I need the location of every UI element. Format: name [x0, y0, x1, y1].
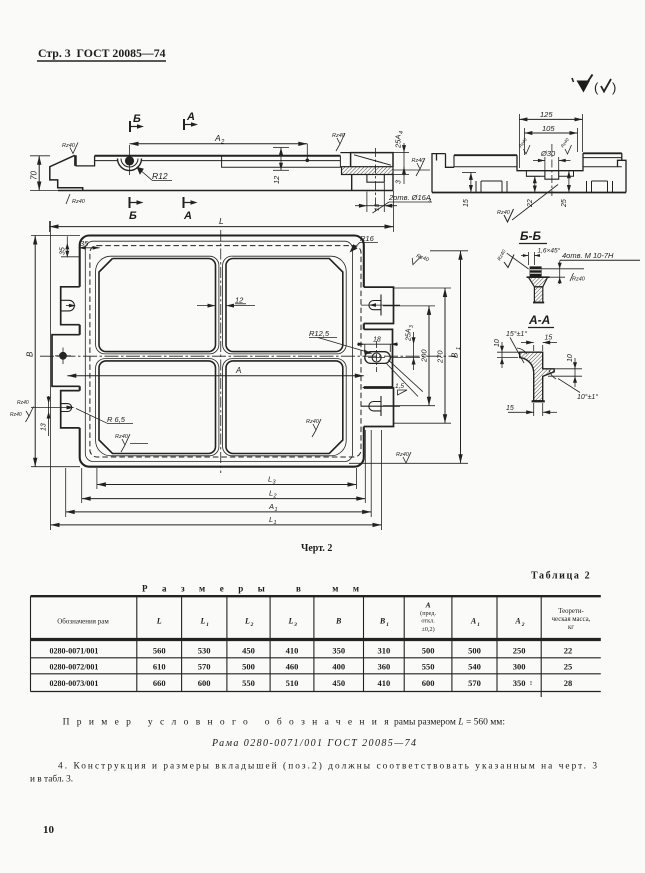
svg-text:15°±1°: 15°±1°	[506, 330, 527, 338]
data rows	[50, 646, 573, 689]
dimension 200	[383, 306, 435, 406]
dimension A	[67, 366, 364, 378]
svg-text:ческая масса,: ческая масса,	[552, 616, 591, 623]
L1	[51, 515, 382, 527]
Rz40 with leader to middle	[497, 185, 558, 223]
svg-text:610: 610	[153, 662, 166, 672]
svg-text:530: 530	[198, 646, 211, 656]
svg-text:!: !	[530, 681, 532, 687]
inner flange contour	[85, 241, 352, 461]
bottom dimensions L3 L2 A1 L1	[51, 221, 382, 530]
section mark А (bottom)	[183, 197, 198, 222]
svg-text:500: 500	[468, 646, 481, 656]
svg-text:270: 270	[436, 350, 445, 364]
svg-text:(пред.: (пред.	[420, 610, 436, 617]
svg-text:550: 550	[422, 662, 435, 672]
internal shelf line	[222, 156, 341, 167]
dimension 270	[394, 288, 451, 423]
dimension 35 vertical	[60, 236, 81, 257]
svg-text:L: L	[287, 617, 293, 626]
svg-text:15: 15	[545, 335, 553, 342]
svg-text:410: 410	[378, 678, 391, 688]
right end raised block	[351, 153, 393, 167]
svg-text:R12: R12	[152, 171, 168, 181]
svg-text:510: 510	[286, 678, 299, 688]
header texts	[57, 601, 590, 634]
svg-text:4отв. М 10-7Н: 4отв. М 10-7Н	[562, 251, 614, 260]
boss below with hole	[352, 175, 393, 191]
table grid	[31, 596, 601, 697]
dimension A2	[130, 133, 310, 162]
svg-text:15: 15	[506, 405, 514, 412]
roughness symbol top right	[577, 81, 591, 93]
lower-left lug	[61, 391, 80, 428]
svg-text:Rz40: Rz40	[560, 137, 570, 149]
flange	[528, 277, 547, 287]
svg-text:4: 4	[399, 131, 405, 134]
opening bottom-right	[226, 361, 343, 454]
svg-text:660: 660	[153, 678, 166, 688]
content injected below	[37, 46, 616, 95]
svg-text:и в табл. 3.: и в табл. 3.	[30, 774, 73, 785]
svg-text:R16: R16	[360, 234, 375, 243]
svg-text:25A: 25A	[394, 135, 403, 149]
svg-text:250: 250	[513, 646, 526, 656]
svg-text:Rz40: Rz40	[497, 249, 508, 262]
svg-text:В: В	[335, 617, 342, 626]
svg-text:13: 13	[41, 423, 48, 431]
centerlines	[220, 230, 222, 473]
small roughness checks on ext lines	[524, 145, 531, 154]
svg-text:А: А	[186, 111, 195, 123]
svg-text:560: 560	[153, 646, 166, 656]
dimension 18	[355, 183, 397, 212]
svg-text:L: L	[156, 617, 162, 626]
svg-text:12: 12	[235, 296, 244, 305]
svg-text:А: А	[268, 502, 274, 511]
dimension 25A3	[391, 325, 421, 370]
svg-text:Таблица 2: Таблица 2	[531, 571, 591, 582]
rail bottom	[58, 190, 394, 192]
svg-text:А: А	[425, 601, 431, 610]
section mark Б (bottom)	[129, 197, 144, 222]
svg-text:Ø30: Ø30	[540, 149, 556, 158]
stem	[534, 287, 542, 303]
boss with R12	[118, 145, 142, 175]
svg-text:70: 70	[30, 171, 39, 180]
threaded cap (dark)	[530, 266, 542, 277]
svg-text:550: 550	[242, 678, 255, 688]
left inner shelf	[454, 166, 517, 168]
svg-text:3: 3	[396, 180, 403, 184]
section mark Б (top)	[130, 113, 144, 132]
left feet slots	[476, 181, 507, 193]
label 1,6x45	[521, 247, 561, 266]
svg-text:Б: Б	[129, 210, 137, 222]
opening bottom-left	[99, 361, 216, 454]
svg-text:А-А: А-А	[528, 313, 550, 327]
dimension 105	[524, 124, 577, 155]
hidden dashed contour	[90, 246, 361, 457]
right end notch	[618, 153, 627, 192]
svg-text:Rz40: Rz40	[17, 400, 29, 406]
svg-text:12: 12	[272, 175, 281, 184]
svg-text:Rz40: Rz40	[72, 199, 86, 205]
svg-text:0280-0071/001: 0280-0071/001	[50, 647, 99, 656]
dim 15 bottom	[506, 403, 557, 416]
svg-text:(: (	[594, 80, 599, 95]
mid-left block	[52, 335, 80, 387]
svg-text:А: А	[514, 617, 521, 626]
svg-text:10°±1°: 10°±1°	[577, 393, 598, 401]
svg-text:18: 18	[374, 203, 381, 211]
svg-text:1: 1	[386, 622, 389, 628]
svg-text:Rz40: Rz40	[572, 277, 586, 283]
svg-text:10: 10	[567, 354, 574, 362]
section mark А (top)	[184, 111, 198, 130]
svg-text:450: 450	[242, 646, 255, 656]
svg-text:460: 460	[286, 662, 299, 672]
dimension 12 (rib)	[197, 296, 255, 308]
svg-text:400: 400	[332, 662, 345, 672]
svg-text:0280-0073/001: 0280-0073/001	[50, 679, 99, 688]
dimension 125	[519, 110, 582, 168]
section profile	[520, 352, 555, 401]
dimension 13	[41, 396, 51, 436]
svg-text:600: 600	[422, 678, 435, 688]
svg-text:570: 570	[198, 662, 211, 672]
label 15±1	[506, 330, 527, 363]
svg-text:3: 3	[428, 199, 432, 205]
R12,5 label	[309, 329, 373, 354]
svg-text:откл.: откл.	[421, 618, 435, 625]
svg-text:Черт. 2: Черт. 2	[301, 543, 332, 554]
svg-text:10: 10	[494, 339, 501, 347]
dimension 35 horizontal	[79, 239, 100, 250]
svg-text:2: 2	[273, 494, 277, 500]
opening top-left	[99, 259, 216, 352]
svg-text:18: 18	[373, 337, 381, 344]
svg-text:1,5: 1,5	[395, 383, 404, 390]
svg-text:L: L	[219, 216, 224, 226]
svg-text:кг: кг	[568, 624, 574, 631]
svg-text:1: 1	[477, 622, 480, 628]
svg-text:2отв. Ø16А: 2отв. Ø16А	[388, 193, 431, 202]
dimension 22	[526, 176, 540, 208]
label ф30	[533, 149, 571, 162]
svg-text:450: 450	[332, 678, 345, 688]
svg-text:350: 350	[332, 646, 345, 656]
svg-text:Rz40: Rz40	[10, 412, 22, 418]
svg-text:22: 22	[564, 646, 573, 656]
svg-text:Б-Б: Б-Б	[520, 229, 541, 243]
svg-text:4. Конструкция и размеры вклад: 4. Конструкция и размеры вкладышей (поз.…	[58, 761, 597, 772]
svg-text:В: В	[451, 352, 460, 358]
hatched band (section)	[342, 167, 394, 175]
dimension B1	[349, 251, 468, 463]
svg-text:25А: 25А	[406, 328, 413, 342]
opening top-right	[226, 259, 343, 352]
svg-text:Rz40: Rz40	[415, 253, 430, 263]
hole ф30	[545, 171, 559, 180]
svg-text:600: 600	[198, 678, 211, 688]
dimension B	[26, 236, 81, 467]
svg-text:35: 35	[60, 247, 67, 255]
svg-text:): )	[612, 80, 616, 95]
svg-text:1,6×45°: 1,6×45°	[538, 247, 561, 255]
dimension 3	[393, 167, 409, 184]
A1	[66, 502, 372, 514]
svg-text:125: 125	[540, 110, 553, 119]
upper-right lug	[364, 287, 394, 323]
svg-text:15: 15	[463, 199, 470, 207]
svg-text:2: 2	[521, 622, 525, 628]
dimension 25	[561, 171, 571, 208]
dimension 15	[462, 172, 476, 207]
svg-text:350: 350	[513, 678, 526, 688]
right half top edges (plate)	[583, 152, 622, 154]
bottom edge	[432, 192, 626, 194]
svg-text:3: 3	[293, 622, 297, 628]
diagonal leader with check	[507, 253, 529, 269]
L3	[97, 475, 357, 487]
R6,5 label	[76, 409, 133, 425]
svg-text:105: 105	[542, 124, 555, 133]
svg-text:10: 10	[43, 824, 55, 836]
main rail top plate (double line)	[95, 155, 341, 157]
dim 10 left	[494, 339, 519, 368]
svg-text:рамы размером L = 560 мм:: рамы размером L = 560 мм:	[394, 718, 505, 728]
svg-text:В: В	[26, 351, 35, 357]
svg-text:Теорети-: Теорети-	[558, 608, 584, 615]
svg-text:Rz40: Rz40	[62, 143, 76, 149]
dimension 12 (side view)	[272, 148, 289, 185]
upper-left lug	[61, 287, 80, 325]
svg-text:310: 310	[378, 646, 391, 656]
svg-text:2: 2	[220, 140, 225, 146]
R16 label	[350, 234, 379, 253]
left end notch profile	[432, 154, 454, 193]
dim 6 right	[542, 262, 584, 284]
lower-right lug	[364, 388, 394, 427]
svg-text:А: А	[235, 366, 241, 375]
svg-text:540: 540	[468, 662, 481, 672]
svg-text:410: 410	[286, 646, 299, 656]
taper 1,5 mark	[386, 360, 423, 397]
R12 label	[137, 167, 173, 181]
svg-text:1: 1	[206, 622, 209, 628]
svg-text:28: 28	[564, 678, 573, 688]
svg-text:570: 570	[468, 678, 481, 688]
svg-text:±0,2): ±0,2)	[421, 626, 434, 633]
svg-text:360: 360	[378, 662, 391, 672]
dimension 70	[30, 156, 42, 191]
svg-text:L: L	[244, 617, 250, 626]
extension lines far left	[30, 155, 50, 157]
dim 15 top	[521, 335, 557, 352]
left end profile (boot)	[50, 155, 83, 190]
svg-text:2: 2	[250, 622, 254, 628]
dim 10 right	[548, 354, 582, 387]
label 4отв М10-7Н	[560, 251, 640, 262]
svg-text:R 6,5: R 6,5	[107, 415, 126, 424]
middle recess	[517, 153, 583, 170]
svg-text:1: 1	[275, 507, 278, 513]
svg-text:25: 25	[561, 199, 568, 208]
svg-text:R12,5: R12,5	[309, 329, 330, 338]
label 2отв ф16А3	[373, 193, 433, 213]
svg-text:200: 200	[420, 349, 429, 363]
svg-text:25: 25	[564, 662, 573, 672]
mid-right block	[364, 329, 393, 387]
svg-text:Б: Б	[133, 113, 141, 125]
svg-text:Стр. 3 ГОСТ 20085—74: Стр. 3 ГОСТ 20085—74	[38, 46, 166, 60]
svg-text:1: 1	[274, 520, 277, 526]
L2	[82, 489, 366, 501]
dimension 25A4	[393, 131, 409, 176]
left half top edge	[454, 154, 517, 156]
dimension 18 (slot)	[357, 337, 398, 353]
frame outer outline	[80, 236, 364, 467]
svg-text:L: L	[200, 617, 206, 626]
right feet slots	[587, 181, 613, 193]
svg-text:300: 300	[513, 662, 526, 672]
svg-text:1: 1	[456, 347, 462, 350]
svg-text:A: A	[214, 133, 221, 143]
svg-text:500: 500	[242, 662, 255, 672]
svg-text:В: В	[379, 617, 386, 626]
svg-text:500: 500	[422, 646, 435, 656]
svg-text:Размеры в мм: Размеры в мм	[142, 584, 359, 594]
svg-text:3: 3	[409, 325, 415, 328]
svg-text:Обозначения рам: Обозначения рам	[57, 618, 109, 626]
svg-text:А: А	[470, 617, 477, 626]
svg-text:Рама 0280-0071/001 ГОСТ 20085—: Рама 0280-0071/001 ГОСТ 20085—74	[211, 738, 416, 749]
svg-text:А: А	[183, 210, 192, 222]
svg-text:0280-0072/001: 0280-0072/001	[50, 663, 99, 672]
dimension L	[50, 191, 394, 232]
label 10±1	[549, 370, 598, 401]
svg-text:Пример условного обозначения: Пример условного обозначения	[63, 717, 390, 728]
